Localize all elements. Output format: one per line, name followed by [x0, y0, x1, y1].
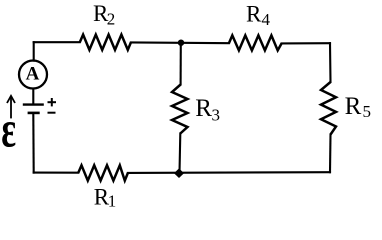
battery emf source [23, 105, 44, 113]
junction node bottom (diamond) [174, 168, 184, 178]
wire right rail [329, 43, 332, 172]
wire middle branch [180, 43, 181, 173]
svg-text:1: 1 [108, 192, 117, 211]
resistor R1 [78, 165, 128, 180]
battery minus sign [48, 112, 56, 114]
wire bottom rail [34, 171, 330, 174]
svg-text:A: A [26, 63, 40, 84]
resistor R3 [172, 85, 188, 134]
svg-text:2: 2 [107, 9, 116, 28]
junction node top (dot) [178, 40, 184, 46]
ammeter A (U1) [19, 61, 47, 89]
svg-text:4: 4 [262, 10, 271, 29]
svg-text:5: 5 [363, 102, 372, 121]
wire top rail [34, 42, 330, 43]
svg-text:3: 3 [212, 105, 221, 124]
resistor R5 [321, 82, 336, 135]
wire left rail [32, 42, 35, 172]
resistor R4 [229, 35, 282, 50]
svg-text:R: R [345, 93, 362, 120]
svg-text:ε: ε [1, 101, 16, 159]
label epsilon (emf) [1, 101, 16, 159]
resistor R2 [80, 35, 131, 50]
svg-text:R: R [246, 2, 262, 27]
svg-text:R: R [195, 95, 212, 122]
current direction arrow [7, 96, 15, 119]
battery plus sign [48, 98, 57, 106]
